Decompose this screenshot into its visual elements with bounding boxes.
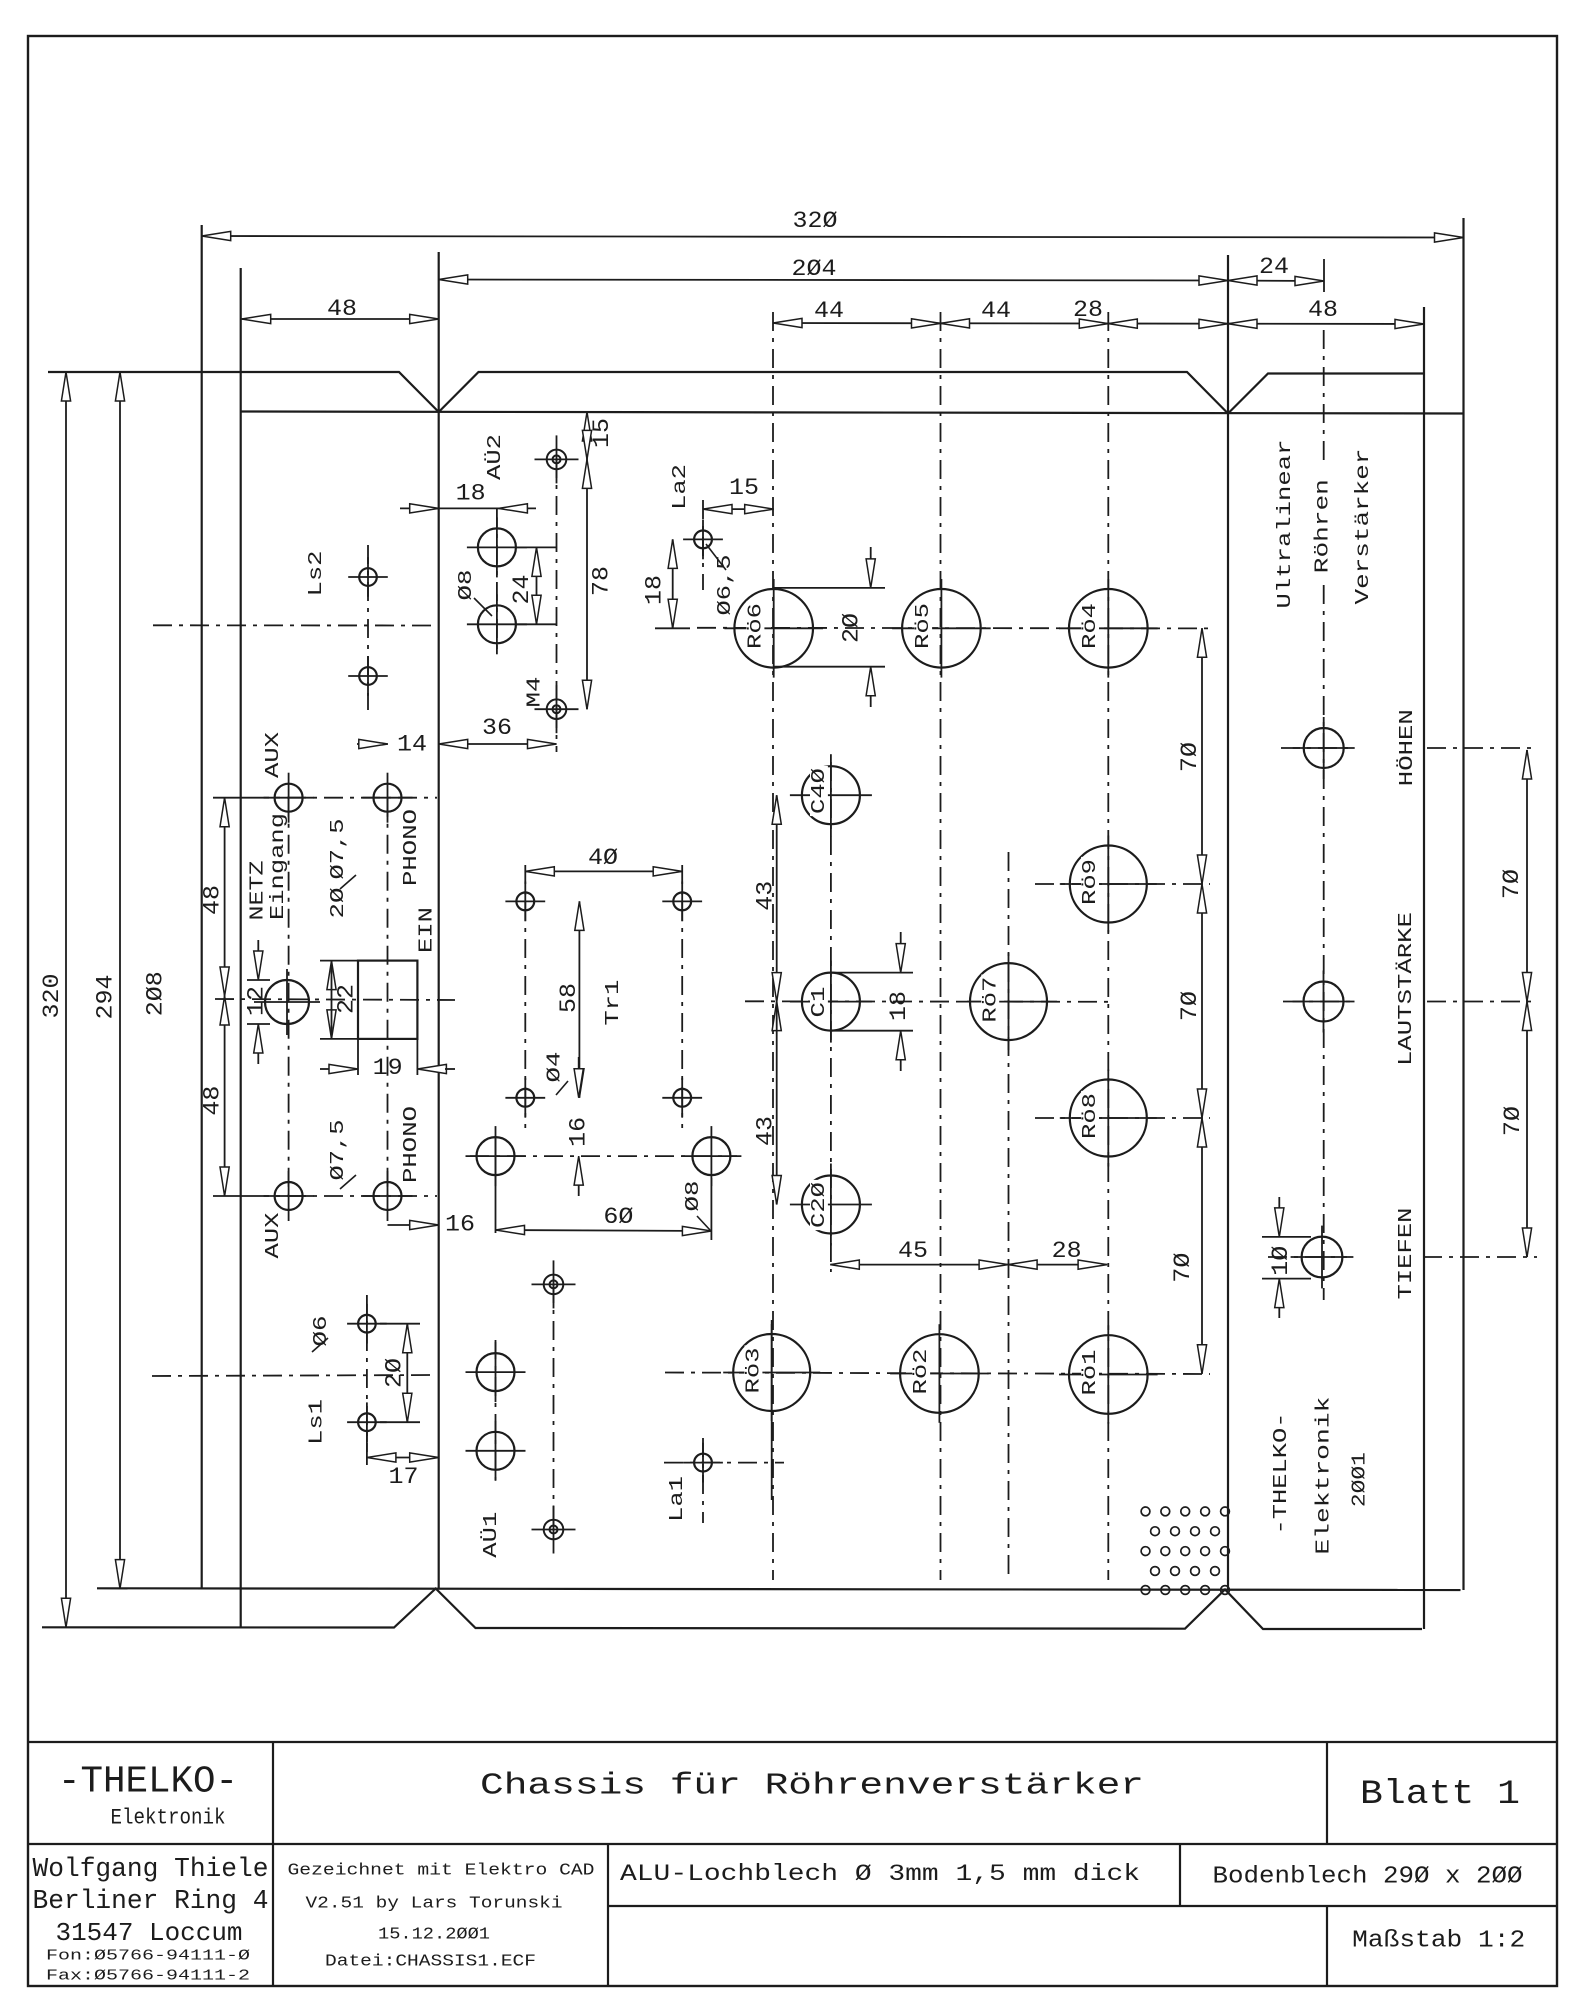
dimension 24 AUe2 [516,546,556,548]
svg-text:16: 16 [566,1117,592,1147]
svg-text:Tr1: Tr1 [602,980,624,1026]
label Roe3 [745,1345,763,1395]
hole AUe2 D8 lower [478,605,516,643]
centerline column Tr1 right x=682.2 [681,865,683,1128]
hole M4 top [547,450,567,470]
svg-text:V2.51 by Lars Torunski: V2.51 by Lars Torunski [306,1895,563,1914]
svg-text:48: 48 [1308,297,1338,323]
dimension 48 48 left [224,798,226,1196]
svg-text:19: 19 [373,1055,403,1081]
svg-text:Bodenblech 29Ø x 2ØØ: Bodenblech 29Ø x 2ØØ [1213,1864,1523,1891]
svg-text:2ØØ1: 2ØØ1 [1348,1452,1370,1507]
hole Roe1 [1069,1335,1148,1414]
hole C20 [802,1176,860,1234]
centerline column AUe1-holes x=495.5 [495,1137,497,1233]
centerline column PHONO x=387.5 [387,798,389,1196]
svg-text:Verstärker: Verstärker [1352,449,1374,605]
svg-text:NETZ: NETZ [247,861,269,921]
sheet left edge [201,225,203,1588]
svg-text:58: 58 [556,983,582,1013]
svg-text:Ls1: Ls1 [305,1399,327,1445]
hole Roe8 [1070,1080,1147,1157]
label Roe1 [1081,1347,1099,1397]
dimension 15 M4 top [575,411,600,413]
hole Ls1 upper [358,1315,376,1333]
hole Tr1 bottom-left [516,1089,534,1107]
svg-text:Rö4: Rö4 [1079,603,1101,649]
centerline column controls x=1323.7 [1323,330,1325,467]
svg-text:Rö1: Rö1 [1079,1350,1101,1396]
svg-text:2Ø4: 2Ø4 [792,256,837,282]
svg-text:M4: M4 [524,677,546,708]
sheet top inner bend line [240,412,1463,414]
label Roe4 [1081,601,1099,651]
svg-text:HÖHEN: HÖHEN [1395,709,1418,786]
svg-text:Chassis für Röhrenverstärker: Chassis für Röhrenverstärker [480,1769,1144,1804]
svg-text:Rö5: Rö5 [912,603,934,649]
svg-text:Ø6: Ø6 [310,1316,332,1347]
svg-text:Ø6,5: Ø6,5 [714,555,736,616]
svg-text:Ø7,5: Ø7,5 [327,1120,349,1181]
svg-text:PHONO: PHONO [400,809,422,886]
svg-text:AÜ2: AÜ2 [483,434,506,480]
svg-text:AUX: AUX [262,1212,284,1258]
svg-text:ALU-Lochblech Ø 3mm 1,5 mm: ALU-Lochblech Ø 3mm 1,5 mm dick [620,1861,1140,1887]
svg-text:Eingang: Eingang [267,813,289,920]
label Roe7 [981,974,999,1024]
centerline column Roe6/Roe3 x=773 [772,312,774,1580]
fold line left x=438.7 [438,252,440,1589]
svg-text:Röhren: Röhren [1312,479,1334,573]
dimension 45 [830,1264,1008,1266]
svg-text:24: 24 [509,575,535,605]
svg-text:22: 22 [334,984,360,1014]
dimension 48 top-left [242,318,439,320]
centerline column AUe2 x=496.9 [496,508,498,655]
svg-text:16: 16 [445,1212,475,1238]
hole Roe6 [734,589,813,668]
dimension 70 HOEHEN-LAUTSTAERKE [1526,750,1528,1002]
label Roe6 [747,601,765,651]
svg-text:48: 48 [200,885,226,915]
hole M4 bottom [547,699,567,719]
centerline column C40/C1/C20 x=830.9 [830,762,832,1272]
hole Roe5 [902,589,981,668]
svg-text:Blatt 1: Blatt 1 [1360,1776,1520,1814]
centerline row Roe9 y=884 [1035,883,1210,885]
svg-text:Maßstab 1:2: Maßstab 1:2 [1352,1928,1525,1955]
centerline row La1 y=1462.6 [664,1462,784,1464]
hole Roe2 [900,1334,979,1413]
svg-text:28: 28 [1052,1238,1082,1264]
hole AUX top [275,784,303,812]
dimension 18 AUe2 [400,507,536,509]
svg-text:7Ø: 7Ø [1170,1252,1196,1282]
svg-text:78: 78 [589,566,615,596]
svg-text:48: 48 [200,1086,226,1116]
hole La1 [694,1454,712,1472]
svg-text:Berliner Ring 4: Berliner Ring 4 [33,1887,269,1917]
hole Roe3 [733,1334,810,1411]
label Roehren [1314,477,1332,575]
svg-text:Wolfgang Thiele: Wolfgang Thiele [33,1855,269,1885]
dimension 43 upper [776,795,778,1001]
rectangle cutout dimension 19 [357,1039,359,1075]
centerline column Ls2 x=368 [367,545,369,710]
dimension 70 LAUTSTAERKE-TIEFEN [1526,1002,1528,1258]
svg-text:1Ø: 1Ø [1268,1245,1294,1275]
svg-text:C1: C1 [808,987,830,1018]
centerline row NETZ/C1/Roe7 y=1001.5 [215,999,455,1000]
svg-text:18: 18 [642,575,668,605]
hole Tr1 top-left [516,893,534,911]
hole Ls2 upper [359,568,377,586]
sheet right edge x=1463.5 [1462,218,1464,1590]
svg-text:43: 43 [753,881,779,911]
centerline column M4 x=556.5 [556,459,558,709]
hole Ls2 lower [359,667,377,685]
svg-text:LAUTSTÄRKE: LAUTSTÄRKE [1395,912,1417,1066]
centerline column La2 x=703 [702,500,704,590]
hole La2 [694,531,712,549]
dimension 70 Roe8-Roe1 [1201,1118,1203,1374]
sheet bottom edge with bend notches [42,1589,1422,1630]
svg-text:Ø8: Ø8 [455,570,477,601]
dimension 15 La2 [703,508,774,510]
svg-text:44: 44 [814,298,844,324]
hole Roe4 [1069,589,1148,668]
fold line right x=1228 [1227,255,1229,1589]
svg-text:-THELKO-: -THELKO- [1270,1413,1292,1535]
svg-text:7Ø: 7Ø [1499,869,1525,899]
svg-text:24: 24 [1259,254,1289,280]
hole C1 [802,973,860,1031]
hole Tr1 top-right [673,893,691,911]
svg-text:44: 44 [981,298,1011,324]
svg-text:Datei:CHASSIS1.ECF: Datei:CHASSIS1.ECF [325,1953,536,1972]
dimension 70 Roe9-Roe8 [1201,884,1203,1118]
dimension 17 [367,1457,439,1459]
hole TIEFEN [1302,1237,1343,1278]
dimension 294 left [119,372,121,1589]
dimension 16 Tr1 to D8 row [574,1069,583,1098]
centerline row AUX/PHONO top y=797.7 [250,797,437,799]
centerline row TIEFEN y=1257 [1268,1256,1347,1258]
svg-text:Rö6: Rö6 [745,603,767,649]
svg-text:La1: La1 [666,1476,688,1522]
dimension 18 C1 [831,972,913,974]
svg-text:Rö7: Rö7 [979,977,1001,1023]
hole Roe9 [1070,846,1147,923]
dimension 28 bottom [1008,1264,1107,1266]
svg-text:Ls2: Ls2 [305,551,327,597]
hole AUe1 M4 bottom [544,1520,564,1540]
svg-text:31547 Loccum: 31547 Loccum [56,1918,243,1948]
svg-text:AUX: AUX [262,732,284,778]
dimension 20 Ls1 [406,1324,408,1423]
svg-text:PHONO: PHONO [400,1106,422,1183]
label C40 [810,766,828,816]
svg-text:18: 18 [456,481,486,507]
perforation dot pattern (Lochblech) [1141,1507,1150,1516]
sheet top edge with bend notches [48,372,1424,414]
hole HOEHEN [1304,728,1344,768]
label Roe2 [912,1346,930,1396]
centerline column Tr1 left x=525.3 [524,865,526,1128]
centerline column AUe1-M4 x=553.5 [553,1284,555,1530]
centerline column AUX x=288.6 [288,798,290,1196]
dimension row 44 44 28 48 [773,323,1424,324]
svg-text:Rö3: Rö3 [743,1348,765,1394]
svg-text:28: 28 [1073,297,1103,323]
label C1 [810,985,828,1020]
svg-text:2Ø: 2Ø [839,613,865,643]
dimension 10 TIEFEN [1262,1236,1311,1238]
dimension 20 Roe6 [774,587,885,589]
svg-text:C2Ø: C2Ø [808,1182,830,1228]
hole AUe2 D8 upper [478,528,516,566]
centerline row Roe8 y=1118 [1035,1117,1210,1119]
hole AUe1 D8 upper [477,1353,515,1391]
svg-text:45: 45 [898,1238,928,1264]
svg-text:La2: La2 [669,464,691,510]
hole C40 [802,766,860,824]
sheet right bend line x=1424 [1423,307,1425,1629]
svg-text:Rö9: Rö9 [1079,859,1101,905]
svg-text:AÜ1: AÜ1 [479,1512,502,1558]
hole Tr1 bottom-right [673,1089,691,1107]
sheet bottom inner bend line [97,1588,1461,1590]
dimension 24 top [1228,280,1324,283]
svg-text:15: 15 [729,475,759,501]
dimension 58 Tr1 [578,901,580,1097]
hole D8 left of 60 dim [477,1137,515,1175]
svg-text:Elektronik: Elektronik [111,1806,226,1831]
centerline row Ls2/Roe6 y=626 [153,624,437,626]
svg-text:7Ø: 7Ø [1177,742,1203,772]
svg-text:Ø7,5: Ø7,5 [327,819,349,880]
centerline column Ls1 x=366.9 [366,1295,368,1452]
dimension 60 [496,1230,712,1231]
label Roe9 [1081,857,1099,907]
svg-text:Rö8: Rö8 [1079,1093,1101,1139]
hole AUe1 D8 lower [477,1432,515,1470]
label Roe8 [1081,1091,1099,1141]
rectangle cutout dimension 22 [320,960,358,962]
svg-text:-THELKO-: -THELKO- [58,1761,238,1804]
svg-text:Elektronik: Elektronik [1312,1397,1334,1555]
dimension 204 top [439,280,1228,281]
centerline column Roe5/Roe2 x=940.5 [940,312,942,1580]
dimension 40 Tr1 [525,870,682,872]
dimension 78 [586,459,588,709]
centerline row AUX/PHONO bottom y=1196 [250,1195,437,1197]
hole PHONO top [374,784,402,812]
svg-text:2Ø: 2Ø [382,1358,408,1388]
dimension 43 lower [776,1002,778,1205]
svg-text:7Ø: 7Ø [1177,991,1203,1021]
label C20 [810,1180,828,1230]
rectangular cutout EIN 19x22 [358,961,417,1039]
svg-text:Rö2: Rö2 [910,1349,932,1395]
dimension 320 left [65,372,67,1627]
svg-text:36: 36 [482,715,512,741]
hole D8 right of 60 dim [692,1137,730,1175]
svg-text:2Ø8: 2Ø8 [143,971,169,1016]
svg-text:43: 43 [753,1116,779,1146]
svg-text:4Ø: 4Ø [588,845,618,871]
dimension 320 top [202,236,1464,238]
centerline column Roe7 x=1008.5 [1008,852,1010,1580]
dimension 36 [439,743,557,745]
svg-text:17: 17 [389,1464,419,1490]
centerline row Ls1/Roe3 y=1373 [152,1375,437,1376]
dimension 18 La2-Roe6 [672,539,674,628]
svg-text:EIN: EIN [415,907,437,953]
svg-text:Gezeichnet mit Elektro CAD: Gezeichnet mit Elektro CAD [288,1862,595,1881]
svg-text:Fax:Ø5766-94111-2: Fax:Ø5766-94111-2 [46,1968,250,1985]
svg-text:48: 48 [327,296,357,322]
svg-text:15: 15 [589,418,615,448]
Roe3 long center cross vertical [771,1320,773,1500]
hole AUe1 M4 top [544,1275,564,1295]
svg-text:18: 18 [886,991,912,1021]
title block grid [28,1741,1556,1743]
svg-text:15.12.2ØØ1: 15.12.2ØØ1 [378,1926,490,1945]
svg-text:320: 320 [39,974,65,1019]
sheet left bend line [240,268,242,1628]
hole AUX bottom [275,1182,303,1210]
svg-text:Ø8: Ø8 [682,1181,704,1212]
svg-text:12: 12 [244,986,270,1016]
hole Ls1 lower [358,1413,376,1431]
svg-text:TIEFEN: TIEFEN [1395,1208,1417,1300]
svg-text:294: 294 [93,975,119,1020]
dimension 14 [357,743,388,745]
svg-text:Fon:Ø5766-94111-Ø: Fon:Ø5766-94111-Ø [46,1948,250,1965]
svg-text:6Ø: 6Ø [603,1204,633,1230]
hole PHONO bottom [374,1182,402,1210]
svg-text:7Ø: 7Ø [1500,1106,1526,1136]
hole Roe7 [970,963,1047,1040]
centerline column Roe4/Roe9/Roe8/Roe1 x=1108.3 [1107,312,1109,1580]
svg-text:Ø4: Ø4 [544,1052,566,1083]
dimension 16 PHONO to fold [388,1224,439,1226]
svg-text:14: 14 [397,732,427,758]
svg-text:C4Ø: C4Ø [808,768,830,814]
dimension 12 NETZ hole [247,979,270,981]
svg-text:Ultralinear: Ultralinear [1274,440,1296,609]
hole LAUTSTAERKE [1304,982,1344,1022]
svg-text:32Ø: 32Ø [793,208,838,234]
hole NETZ [265,980,309,1024]
svg-text:2Ø: 2Ø [327,887,349,918]
centerline row HOEHEN y=748 [1281,747,1352,749]
dimension 70 Roe4-Roe9 [1201,628,1203,884]
centerline row AUe1 y=1156.1 [470,1155,737,1157]
label Roe5 [914,601,932,651]
